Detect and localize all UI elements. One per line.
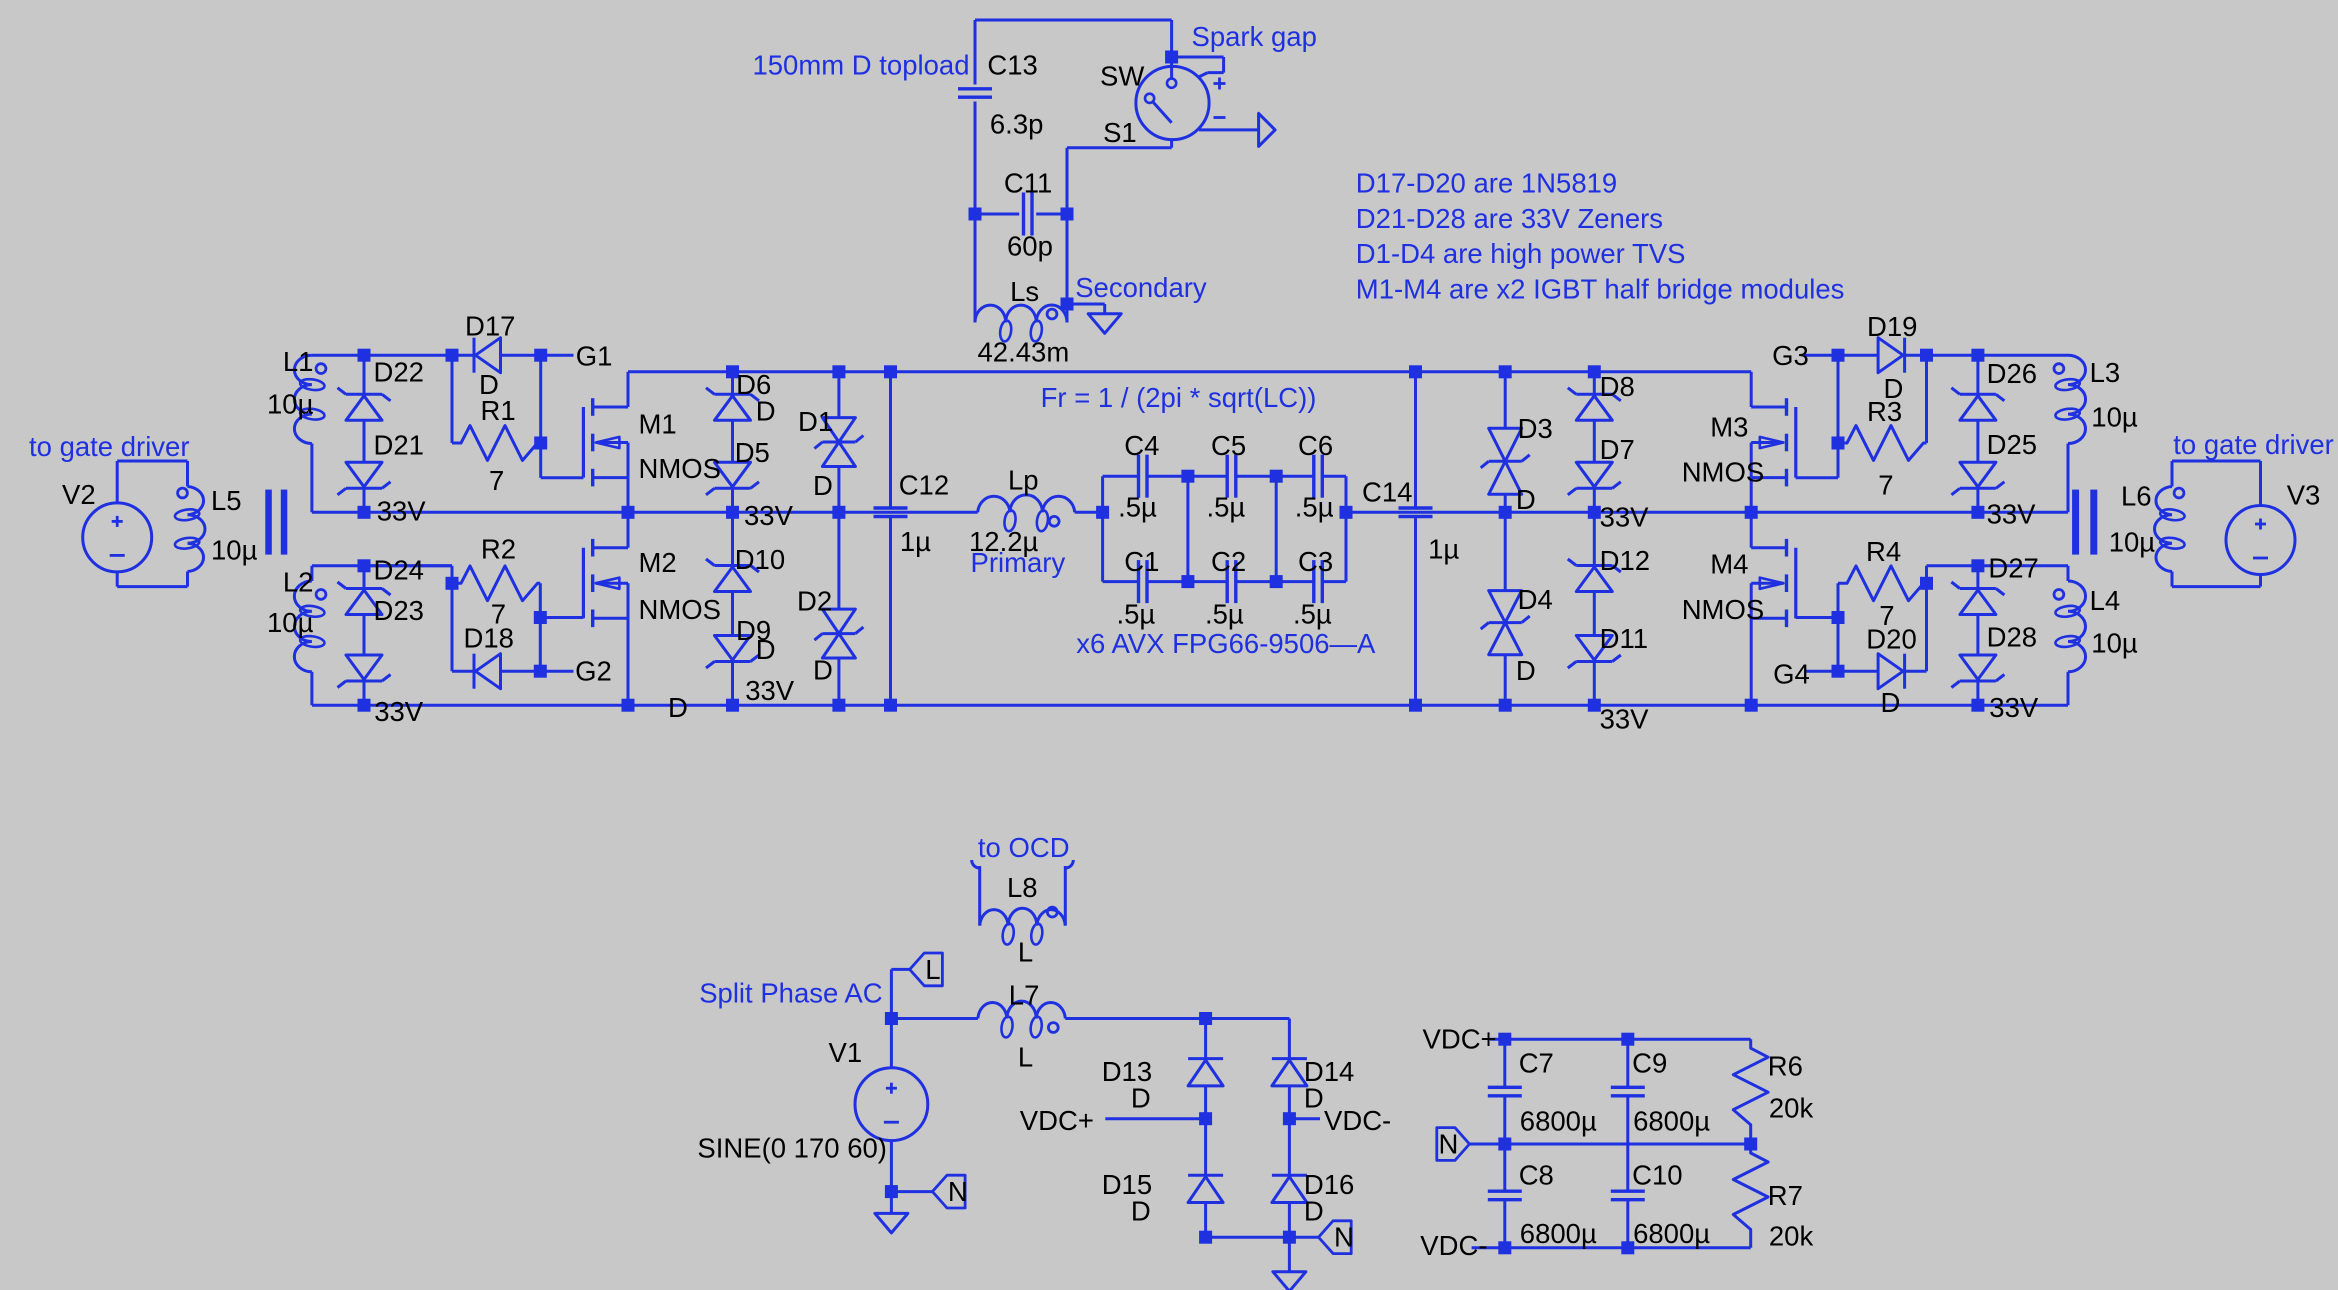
svg-text:33V: 33V	[377, 496, 427, 527]
svg-text:L: L	[1018, 937, 1033, 968]
svg-text:NMOS: NMOS	[1682, 594, 1765, 625]
svg-text:33V: 33V	[1989, 692, 2039, 723]
svg-text:7: 7	[489, 465, 504, 496]
svg-text:NMOS: NMOS	[639, 453, 722, 484]
svg-text:6800µ: 6800µ	[1520, 1106, 1597, 1137]
svg-text:C4: C4	[1124, 430, 1159, 461]
svg-text:D10: D10	[735, 544, 785, 575]
svg-text:L: L	[925, 954, 940, 985]
svg-text:S1: S1	[1103, 117, 1137, 148]
svg-text:D: D	[1131, 1082, 1151, 1113]
svg-text:D21-D28 are 33V Zeners: D21-D28 are 33V Zeners	[1356, 203, 1663, 234]
svg-text:D1: D1	[798, 406, 833, 437]
svg-text:D: D	[756, 634, 776, 665]
svg-text:6800µ: 6800µ	[1633, 1218, 1710, 1249]
svg-text:C11: C11	[1004, 168, 1052, 199]
svg-text:L5: L5	[211, 485, 242, 516]
svg-text:D25: D25	[1987, 429, 2037, 460]
svg-text:D19: D19	[1867, 311, 1917, 342]
svg-text:D: D	[1304, 1082, 1324, 1113]
svg-text:L4: L4	[2090, 585, 2121, 616]
svg-text:6800µ: 6800µ	[1520, 1218, 1597, 1249]
svg-text:D12: D12	[1600, 545, 1650, 576]
svg-text:M2: M2	[639, 547, 677, 578]
svg-text:42.43m: 42.43m	[978, 336, 1070, 367]
svg-text:G3: G3	[1772, 340, 1809, 371]
svg-text:33V: 33V	[745, 675, 795, 706]
svg-text:D1-D4 are high power TVS: D1-D4 are high power TVS	[1356, 238, 1686, 269]
svg-text:C12: C12	[899, 470, 949, 501]
svg-text:R1: R1	[481, 395, 516, 426]
svg-text:SW: SW	[1100, 61, 1144, 92]
svg-text:x6 AVX FPG66-9506—A: x6 AVX FPG66-9506—A	[1076, 628, 1376, 659]
svg-text:D17: D17	[465, 311, 515, 342]
svg-text:.5µ: .5µ	[1205, 599, 1244, 630]
svg-text:33V: 33V	[1600, 502, 1650, 533]
svg-text:G2: G2	[575, 656, 612, 687]
svg-text:10µ: 10µ	[2109, 527, 2156, 558]
svg-text:C8: C8	[1519, 1160, 1554, 1191]
svg-text:1µ: 1µ	[1428, 534, 1459, 565]
svg-text:10µ: 10µ	[267, 607, 314, 638]
svg-text:D28: D28	[1987, 622, 2037, 653]
svg-text:C5: C5	[1211, 430, 1246, 461]
svg-text:Secondary: Secondary	[1075, 272, 1207, 303]
svg-text:L1: L1	[283, 346, 314, 377]
svg-text:N: N	[1439, 1129, 1459, 1160]
svg-text:C10: C10	[1632, 1160, 1682, 1191]
svg-text:1µ: 1µ	[900, 526, 931, 557]
svg-text:7: 7	[1878, 470, 1893, 501]
svg-text:D: D	[1516, 655, 1536, 686]
svg-text:20k: 20k	[1769, 1221, 1814, 1252]
svg-text:60p: 60p	[1007, 230, 1053, 261]
svg-text:M1: M1	[639, 409, 677, 440]
svg-text:SINE(0 170 60): SINE(0 170 60)	[697, 1132, 887, 1163]
svg-text:Split Phase AC: Split Phase AC	[699, 978, 882, 1009]
svg-text:D27: D27	[1988, 553, 2038, 584]
svg-text:10µ: 10µ	[2091, 402, 2138, 433]
svg-text:D4: D4	[1518, 584, 1553, 615]
svg-text:150mm D topload: 150mm D topload	[752, 50, 969, 81]
svg-text:D3: D3	[1518, 413, 1553, 444]
svg-text:D21: D21	[374, 430, 424, 461]
svg-text:VDC-: VDC-	[1420, 1230, 1487, 1261]
svg-text:.5µ: .5µ	[1293, 599, 1332, 630]
svg-text:D5: D5	[735, 437, 770, 468]
svg-text:M1-M4 are x2 IGBT half bridge: M1-M4 are x2 IGBT half bridge modules	[1356, 273, 1845, 304]
svg-text:.5µ: .5µ	[1117, 599, 1156, 630]
svg-text:N: N	[1334, 1222, 1354, 1253]
svg-text:C1: C1	[1124, 546, 1159, 577]
svg-text:D: D	[756, 396, 776, 427]
svg-text:D2: D2	[797, 586, 832, 617]
svg-text:33V: 33V	[1600, 704, 1650, 735]
svg-text:33V: 33V	[744, 500, 794, 531]
svg-text:C2: C2	[1211, 546, 1246, 577]
svg-text:Lp: Lp	[1008, 465, 1039, 496]
svg-text:D22: D22	[374, 357, 424, 388]
svg-text:R6: R6	[1768, 1051, 1803, 1082]
svg-text:D: D	[1131, 1195, 1151, 1226]
svg-text:.5µ: .5µ	[1295, 492, 1334, 523]
svg-text:D26: D26	[1987, 358, 2037, 389]
svg-text:to gate driver: to gate driver	[29, 431, 190, 462]
svg-text:Primary: Primary	[971, 547, 1066, 578]
svg-text:M4: M4	[1710, 549, 1748, 580]
svg-text:V2: V2	[62, 479, 96, 510]
svg-text:VDC-: VDC-	[1324, 1105, 1391, 1136]
svg-text:V1: V1	[829, 1037, 863, 1068]
svg-text:C3: C3	[1298, 546, 1333, 577]
svg-text:to OCD: to OCD	[978, 832, 1070, 863]
svg-text:.5µ: .5µ	[1118, 492, 1157, 523]
svg-text:R4: R4	[1866, 536, 1901, 567]
svg-text:10µ: 10µ	[211, 535, 258, 566]
svg-text:Spark gap: Spark gap	[1192, 21, 1317, 52]
svg-text:M3: M3	[1710, 412, 1748, 443]
svg-text:Fr = 1 / (2pi * sqrt(LC)): Fr = 1 / (2pi * sqrt(LC))	[1041, 382, 1317, 413]
svg-text:C6: C6	[1298, 430, 1333, 461]
svg-text:D: D	[813, 470, 833, 501]
svg-text:D8: D8	[1600, 371, 1635, 402]
svg-text:V3: V3	[2287, 479, 2321, 510]
svg-text:6.3p: 6.3p	[990, 109, 1044, 140]
svg-text:C13: C13	[987, 50, 1037, 81]
svg-text:C7: C7	[1519, 1047, 1554, 1078]
svg-text:C9: C9	[1632, 1047, 1667, 1078]
svg-text:10µ: 10µ	[267, 389, 314, 420]
svg-text:R7: R7	[1768, 1180, 1803, 1211]
svg-text:NMOS: NMOS	[1682, 457, 1765, 488]
svg-text:D7: D7	[1600, 434, 1635, 465]
svg-text:D24: D24	[374, 555, 424, 586]
svg-text:G4: G4	[1773, 659, 1810, 690]
svg-text:L: L	[1018, 1041, 1033, 1072]
svg-text:NMOS: NMOS	[639, 594, 722, 625]
svg-text:33V: 33V	[374, 696, 424, 727]
svg-text:D: D	[1881, 687, 1901, 718]
svg-text:L2: L2	[283, 567, 314, 598]
svg-text:6800µ: 6800µ	[1633, 1106, 1710, 1137]
svg-text:to gate driver: to gate driver	[2173, 429, 2334, 460]
svg-text:D: D	[668, 692, 688, 723]
svg-text:D23: D23	[374, 595, 424, 626]
svg-text:.5µ: .5µ	[1207, 492, 1246, 523]
svg-text:D20: D20	[1866, 624, 1916, 655]
svg-text:L6: L6	[2121, 480, 2152, 511]
svg-text:D18: D18	[464, 623, 514, 654]
svg-text:L7: L7	[1009, 979, 1040, 1010]
svg-text:D17-D20 are 1N5819: D17-D20 are 1N5819	[1356, 168, 1617, 199]
svg-text:D11: D11	[1600, 623, 1648, 654]
svg-text:10µ: 10µ	[2091, 628, 2138, 659]
svg-text:Ls: Ls	[1010, 276, 1039, 307]
svg-text:D: D	[1304, 1195, 1324, 1226]
svg-text:D: D	[813, 655, 833, 686]
svg-text:N: N	[948, 1176, 968, 1207]
svg-text:20k: 20k	[1769, 1093, 1814, 1124]
svg-text:D: D	[1516, 484, 1536, 515]
svg-text:VDC+: VDC+	[1423, 1024, 1497, 1055]
svg-text:G1: G1	[576, 341, 613, 372]
svg-text:R2: R2	[481, 534, 516, 565]
svg-text:33V: 33V	[1987, 499, 2037, 530]
svg-text:R3: R3	[1867, 396, 1902, 427]
svg-text:C14: C14	[1362, 476, 1412, 507]
svg-text:L8: L8	[1007, 872, 1038, 903]
svg-text:VDC+: VDC+	[1020, 1105, 1094, 1136]
svg-text:L3: L3	[2090, 357, 2121, 388]
